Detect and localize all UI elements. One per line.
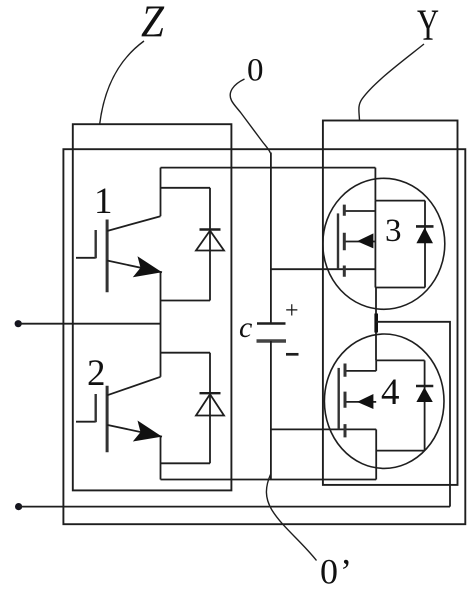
leader from Z [100,41,144,124]
svg-text:1: 1 [94,181,113,222]
svg-text:c: c [239,311,252,344]
MOSFET M4 circle [324,334,444,468]
MOSFET M3 body bar [344,241,375,243]
IGBT Q1 collector diagonal [107,216,160,231]
label 2 [87,353,106,394]
diode D2 triangle [196,394,224,415]
wire top rail [161,167,376,169]
capacitor c top plate [257,322,286,325]
MOSFET M3 circle [323,178,445,309]
main module box [63,149,465,524]
wire right midpoint tap [376,322,450,507]
diode D4 triangle [416,387,432,402]
wire IGBT1 collector riser [160,168,162,217]
MOSFET M3 body arrow [357,233,373,248]
label 4 [381,372,400,413]
MOSFET M4 drain bar [345,370,377,372]
MOSFET M4 body arrow [357,394,373,409]
leader from Y [359,44,424,120]
svg-text:+: + [285,298,299,324]
MOSFET M4 channel segments [344,364,347,438]
label 0 [247,53,264,89]
diode D4 wire [424,360,426,450]
svg-text:0’: 0’ [320,552,352,592]
capacitor c bottom plate [257,339,287,343]
wire IGBT2 emitter drop [160,436,162,479]
label Y [417,1,439,50]
diode D1 wire [209,188,211,301]
svg-text:2: 2 [87,353,106,394]
leader from 0 [230,79,270,153]
MOSFET M3 drain lead from rail [374,168,376,201]
label 1 [94,181,113,222]
diode D1 triangle [196,231,224,251]
MOSFET M4 cell top wire [376,359,424,361]
IGBT Q2 gate lead [76,421,96,423]
terminal dot P (upper left) [15,320,22,327]
label 3 [385,213,402,249]
diode D3 triangle [416,228,433,244]
wire terminal N to right tap [19,506,450,508]
diode D2 wire [209,353,211,464]
label c [239,311,252,344]
IGBT Q2 collector diagonal [107,377,160,396]
wire cell1 bottom [161,300,211,302]
MOSFET M3 cell top wire [375,200,425,202]
MOSFET M4 body bar [345,401,377,403]
diode D3 wire [424,201,426,288]
MOSFET M3 drain bar [344,210,375,212]
IGBT Q1 emitter diagonal [107,261,162,273]
MOSFET M3 gate bar [337,213,339,269]
Z block box [73,124,232,490]
wire cell2 top to diode D2 [161,352,211,354]
IGBT Q1 gate lead [76,257,96,259]
wire M3 gate from node 0 [271,268,376,270]
label 0' [320,552,352,592]
label Z [141,0,164,47]
MOSFET M4 cell bottom wire [376,450,424,452]
junction blob at right midpoint [374,314,378,333]
svg-text:0: 0 [247,53,264,89]
diode D3 cathode bar [416,225,434,228]
leader from 0' [266,474,316,561]
IGBT Q2 gate bar [94,394,96,422]
svg-text:Y: Y [417,1,439,50]
IGBT Q1 gate bar [94,230,96,258]
capacitor c top lead (node 0) [270,153,272,324]
IGBT Q1 channel bar [106,220,109,293]
label minus [286,353,299,356]
wire bottom rail 0' [161,479,377,481]
MOSFET M4 gate bar [338,368,340,430]
capacitor c bottom lead (node 0') [270,341,272,480]
svg-text:4: 4 [381,372,400,413]
MOSFET M3 channel segments [343,205,346,277]
IGBT Q1 emitter arrow [133,256,162,277]
IGBT Q2 emitter diagonal [107,425,162,437]
MOSFET M3 cell bottom wire [375,287,425,289]
MOSFET M4 source spine drop [375,429,377,479]
diode D1 cathode bar [200,228,221,230]
diode D4 cathode bar [416,385,433,388]
svg-text:Z: Z [141,0,164,47]
terminal dot N (lower left) [15,503,22,510]
label + [285,298,299,324]
wire M4 gate from node 0' [271,428,376,430]
MOSFET M4 right spine [375,360,377,371]
wire cell2 bottom [161,462,211,464]
wire midpoint spine between M3 and M4 [375,288,377,361]
wire cell1 top to diode D1 [161,187,211,189]
Y block box [323,121,458,485]
wire terminal P to midpoint node [18,323,160,325]
wire midpoint vertical (IGBT1 emitter to IGBT2 collector) [160,272,162,377]
IGBT Q2 channel bar [106,386,109,453]
MOSFET M3 right spine [374,201,376,288]
svg-text:3: 3 [385,213,402,249]
IGBT Q2 emitter arrow [133,421,162,442]
diode D2 cathode bar [200,392,221,394]
